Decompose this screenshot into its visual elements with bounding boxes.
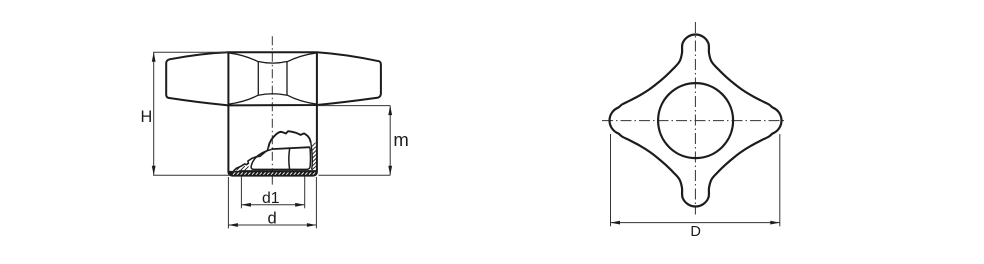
svg-text:m: m bbox=[393, 129, 408, 150]
svg-text:d1: d1 bbox=[262, 190, 280, 207]
svg-text:H: H bbox=[141, 108, 153, 126]
svg-text:D: D bbox=[690, 224, 701, 240]
svg-text:d: d bbox=[267, 209, 276, 228]
